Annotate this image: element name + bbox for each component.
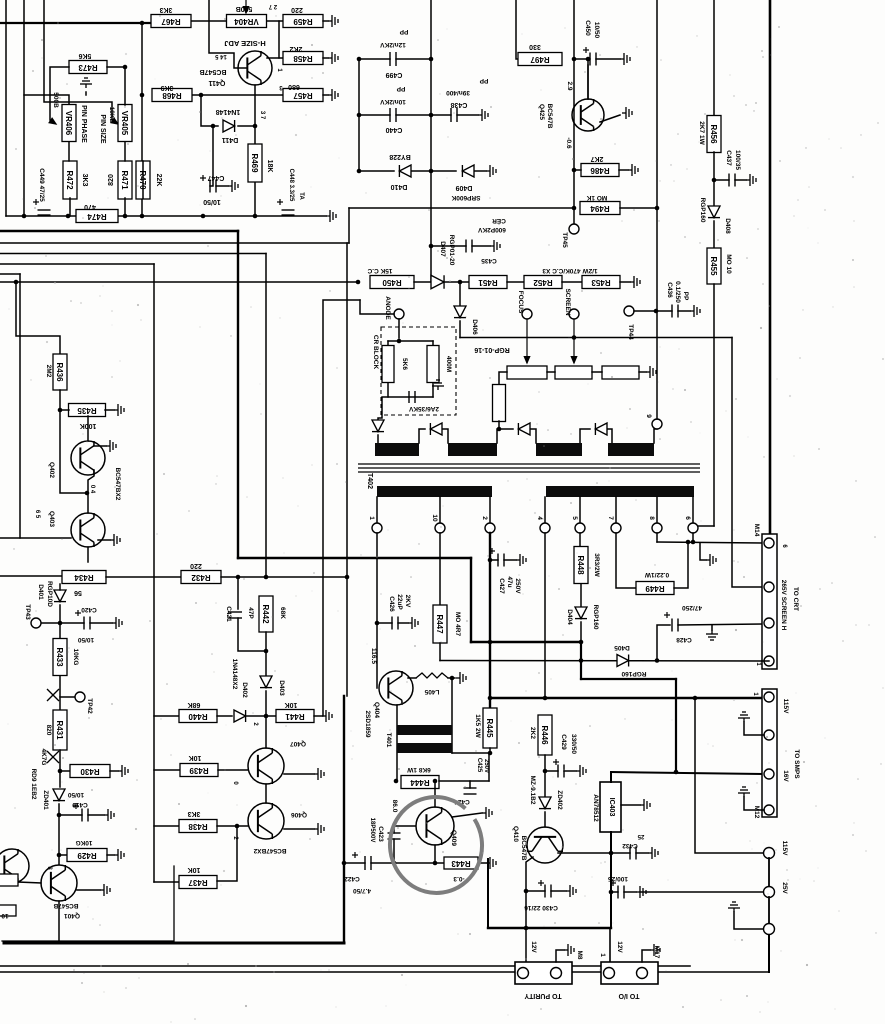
pin 1 of T402 [372,523,382,533]
wire C438 to ground [457,114,478,116]
wire anode drop [398,319,400,338]
resistor R453 [582,276,620,289]
junction rail x203 [201,214,206,219]
wire Q410 emitter [526,857,533,963]
wire C419 to ground [88,814,104,816]
junction R437 base row [235,824,240,829]
diode D404 [575,607,587,619]
wire C427 stub [490,559,498,561]
wire R437 up link [217,826,237,881]
svg-text:C422: C422 [344,875,360,882]
wire Q425 collector [587,65,589,99]
wire C436 to ground [678,310,690,312]
junction R497 node [572,57,577,62]
svg-text:R467: R467 [161,17,181,26]
ground VR406 wiper top [80,78,92,88]
ground at C427 [516,554,526,566]
svg-text:R459: R459 [293,17,313,26]
svg-text:D410: D410 [391,183,408,190]
svg-text:R486: R486 [590,166,610,175]
resistor R430 [70,765,110,778]
junction D410 left [357,169,362,174]
wire C419 stub [59,814,82,816]
wire IC403 output column [610,832,612,928]
svg-text:4K7G: 4K7G [40,749,47,766]
ground in CR block [432,380,444,390]
svg-text:470: 470 [84,203,96,210]
junction base drop [392,861,397,866]
svg-text:CER: CER [492,217,506,224]
resistor R469 [248,144,262,182]
wire Q402 gnd [94,445,106,447]
wire pin1 chain [376,533,378,688]
transistor Q425 [572,99,604,131]
ground at D409 [486,165,496,177]
wire left vertical bus a [5,0,7,216]
potentiometer VR406 [62,105,76,142]
svg-text:47P: 47P [247,607,254,619]
wire C425 stem [469,781,471,788]
wire R432 to x347 [221,576,347,578]
wire thick row y679 [581,678,676,680]
svg-text:M8: M8 [576,950,583,959]
wire thick row y642 [471,641,581,643]
wire R470 span [142,161,144,198]
wire base bus x574 [573,0,575,170]
wire R486 stub [574,169,581,171]
wire H-SIZE box corner [209,0,247,68]
wire long row y253 [0,253,266,255]
wire R430 to ground [110,770,118,772]
svg-text:820: 820 [108,174,115,186]
junction R494 x657 [655,206,660,211]
wire bus to R468 [141,23,143,216]
svg-text:12n/2KV: 12n/2KV [380,41,406,48]
ground at R441 [322,710,332,722]
test point TP44 [624,306,634,316]
resistor R438 [179,820,217,833]
wire Q401 emitter [58,901,60,943]
wire Q401 gnd [77,889,100,891]
svg-text:R436: R436 [55,362,64,382]
ground at C432 [648,847,658,859]
wire thick row y558 [238,557,471,559]
wire x574 to R494 row [573,170,575,208]
ground at R443 [486,857,496,869]
capacitor C448 [282,210,295,215]
resistor R433 [53,639,67,676]
junction anode CR [397,339,402,344]
svg-text:BC547BX2: BC547BX2 [114,468,121,501]
resistor 5K6 CR [382,346,394,383]
svg-text:1N4148: 1N4148 [216,108,241,115]
svg-text:250V: 250V [483,759,489,773]
ground at Q406 [314,823,324,835]
wire row y337 [460,337,732,339]
wire cap column x359 [358,59,360,171]
svg-text:VR405: VR405 [120,111,129,136]
svg-text:RD9 1EB2: RD9 1EB2 [30,768,37,799]
capacitor C422 [365,856,371,870]
capacitor C421 [228,612,242,618]
focus block resistor 1 [507,366,547,379]
svg-text:R456: R456 [709,124,718,144]
wire R486 to ground [619,169,628,171]
svg-text:10n/2KV: 10n/2KV [380,98,406,105]
pin 9 of T402 [652,419,662,429]
wire R436 feed [16,282,60,355]
svg-text:68K: 68K [188,701,201,708]
svg-text:R494: R494 [590,204,610,213]
ground at Q407 [314,768,324,780]
svg-text:Q409: Q409 [450,830,457,846]
wire bus x657 top [656,0,658,208]
wire left bus x154 [153,264,155,882]
svg-text:T401: T401 [385,733,392,748]
wire D411 to emitter [238,125,255,127]
resistor partial left edge [0,874,18,886]
wire C428 to M14 row [678,624,762,625]
wire C450 to ground [596,58,620,60]
plus C448 [277,199,283,205]
wire D401 to TP43 row [59,605,61,639]
test point TP45 [569,224,579,234]
svg-text:3 7: 3 7 [259,111,265,120]
wire 115V to 25V [768,858,770,886]
wire L405 node down [451,678,453,753]
wire R494 to bus [620,207,657,209]
potentiometer VR404 [227,15,267,28]
svg-text:BC547B: BC547B [520,836,527,861]
ground at R457 [328,89,338,101]
wire long row y660 [440,660,762,663]
connector pin 12V purity [518,968,529,979]
svg-text:220: 220 [291,6,303,13]
svg-text:3K3: 3K3 [159,6,172,13]
wire T402 pin 10 lead [439,497,441,523]
wire thick x581 [580,642,582,679]
wire row y208 [349,207,574,209]
wire focus blocks link1 [547,371,555,373]
svg-text:25V: 25V [781,882,788,894]
wire R452 to R453 [562,281,582,283]
wire Q404 collector row [408,677,416,679]
junction x431 y246 [429,244,434,249]
wire M8 gnd hook [556,950,564,962]
wire focus blocks link2 [592,371,602,373]
svg-text:ZD402: ZD402 [556,790,563,810]
wire screen arrow [571,319,576,363]
capacitor C438 [451,108,457,122]
svg-text:R451: R451 [478,278,498,287]
svg-text:Q407: Q407 [290,740,306,747]
junction y928 purity [524,926,529,931]
svg-text:Q404: Q404 [373,702,380,718]
diode D415 between bars [595,423,607,435]
wire R468 to R457 row [190,94,283,96]
wire pin8 chain [656,533,658,542]
junction top rail x142 [140,21,145,26]
svg-text:D401: D401 [37,584,44,600]
junction x695 y698 [693,696,698,701]
wire D409 to ground [475,170,486,172]
wire R456 to C437 [713,152,715,206]
diode D414 between bars [518,423,530,435]
wire bar4 to pin9 [654,429,657,443]
svg-text:R449: R449 [645,584,665,593]
wire D406 to row y337 [459,321,461,338]
junction rail x142 [140,214,145,219]
svg-text:D406: D406 [471,319,478,335]
ground at R458 [328,52,338,64]
wire C426 to ground [398,622,408,624]
svg-text:115V: 115V [782,699,789,714]
diode D403 [260,676,272,688]
wire Q407 emitter [265,784,267,803]
wire thick bottom rail [4,942,344,945]
cross mark upper [47,689,59,701]
junction R494 left [572,206,577,211]
wire bar3-D415 link [580,429,590,443]
wire C431 stub [611,891,618,893]
svg-text:18P500V: 18P500V [369,818,375,843]
wire Q406 gnd [284,828,314,830]
wire R447 row into M14 [762,660,769,662]
svg-text:R440: R440 [188,712,208,721]
svg-text:2K2: 2K2 [289,45,302,52]
wire long row y264 [0,263,154,265]
wire C420 to ground [90,622,112,624]
ground heater hook [706,554,716,566]
resistor R452 [524,276,562,289]
svg-text:T402: T402 [366,473,373,489]
plus C427 [489,548,495,554]
svg-text:56: 56 [74,589,82,596]
wire R434 to D401 [59,584,61,590]
svg-text:TO CRT: TO CRT [792,587,799,611]
svg-text:BC547B: BC547B [200,68,227,75]
wire x695 drop [695,698,763,853]
svg-text:1/2W 470K/C.C X3: 1/2W 470K/C.C X3 [542,267,598,274]
wire T402 pin 4 lead [544,497,546,523]
wire R430 stub [60,770,70,772]
junction TP43 row [58,621,63,626]
svg-text:1: 1 [599,953,606,957]
resistor R459 [283,15,323,28]
svg-text:15K C.C: 15K C.C [367,267,392,274]
ground at Q402 [106,440,116,452]
wire C435 stem [431,245,466,247]
svg-text:8: 8 [648,516,655,520]
wire pin10 chain lower [439,643,441,661]
svg-text:R455: R455 [709,256,718,276]
svg-text:IC403: IC403 [608,798,615,817]
ground at R429 [114,849,124,861]
wire Q402 emitter [88,470,94,513]
wire VR406 wiper arrow [49,118,56,124]
svg-text:2.9: 2.9 [566,81,573,90]
svg-text:R472: R472 [65,170,74,190]
connector M14 pin SCREEN [764,582,774,592]
ground at C426 [408,617,418,629]
ground at rail end [326,210,336,222]
svg-text:820: 820 [45,725,52,736]
svg-text:R450: R450 [382,278,402,287]
wire SMPS gnd2 hook [744,797,764,810]
svg-text:10: 10 [1,912,9,919]
svg-text:R443: R443 [451,859,471,868]
annotation grey circle [384,791,488,899]
svg-text:D404: D404 [566,609,573,625]
wire R445 bottom [489,748,491,753]
diode D405 [617,655,629,667]
junction R429 [57,853,62,858]
svg-text:R438: R438 [188,822,208,831]
svg-text:TO SMPS: TO SMPS [793,749,800,779]
wire C427 to ground [504,559,516,561]
resistor R440 [179,710,217,723]
wire thick B+ row y698 [490,697,762,699]
wire D410 row [359,170,394,172]
resistor R471 [118,161,132,199]
connector pin 12V io [604,968,615,979]
svg-text:AN78512: AN78512 [592,794,599,822]
wire bottom rail y216 [6,215,326,217]
wire R450 to D407 [414,281,431,283]
connector TO PURITY box [515,962,572,984]
junction x344 y863 [342,861,347,866]
ground M17 hook [650,944,660,956]
wire R436 to base bus [60,390,87,493]
svg-text:2KV: 2KV [404,595,411,608]
resistor R467 [151,15,191,28]
wire pin2 thick chain [489,533,491,708]
diode D407 [431,275,444,289]
capacitor C428 [672,619,678,632]
wire R467 to VR404 [190,20,227,22]
wire anode feed [360,300,394,314]
diode D402 [234,710,246,722]
junction R468 feed [140,93,145,98]
junction Q405 emitter [433,861,438,866]
junction pin2 C427 [488,558,493,563]
T402 primary winding bar 4 [608,443,654,456]
svg-text:6K8 1W: 6K8 1W [406,766,430,773]
capacitor CR block [409,391,415,403]
svg-text:MZ-9.1B2: MZ-9.1B2 [529,776,536,805]
svg-text:D411: D411 [222,136,238,143]
svg-text:D407: D407 [439,241,446,257]
svg-text:680: 680 [288,83,300,90]
svg-text:C420: C420 [81,606,97,613]
junction R436 feed [14,280,19,285]
connector TO I/O box [601,962,658,984]
junction bleeder diode row [497,427,502,432]
wire SMPS gnd1 hook [744,722,764,735]
wire R435 stub [60,409,69,411]
test point SCREEN [569,309,579,319]
svg-text:MO 10: MO 10 [725,254,732,274]
svg-text:0.1/250: 0.1/250 [674,281,681,303]
junction R435 [58,408,63,413]
svg-text:R433: R433 [55,647,64,667]
svg-text:C448 3.3/25: C448 3.3/25 [288,169,294,202]
svg-text:TP42: TP42 [86,698,93,714]
wire T402 pin 5 lead [579,497,581,523]
resistor R497 [518,53,562,66]
svg-text:16V: 16V [782,770,789,782]
svg-text:D403: D403 [278,680,285,696]
svg-text:C436: C436 [666,282,673,298]
transistor partial [0,849,29,883]
wire R441 to ground [314,715,322,717]
wire bar1-D413 link [419,429,425,443]
resistor R474 [76,210,118,223]
resistor R431 [53,710,67,750]
junction D404 thick [579,640,584,645]
plus C447 [200,175,206,181]
junction R446 top [543,696,548,701]
wire y863 row left [344,862,365,864]
svg-text:TP43: TP43 [24,604,31,620]
wire C432 stub [611,852,630,854]
wire Q405 collector [434,781,436,807]
svg-text:R471: R471 [120,170,129,190]
junction R486 node [572,168,577,173]
connector SMPS pin gnd2 [764,805,774,815]
wire pin10 chain upper [439,533,441,605]
junction Q402 Q403 [85,491,90,496]
T402 primary winding bar 1 [375,443,419,456]
svg-text:C449 47/25: C449 47/25 [38,168,45,202]
capacitor C419 [82,809,88,822]
svg-text:R458: R458 [293,54,313,63]
wire R448 to D404 [580,584,582,607]
wire Q410 collector [558,852,611,854]
wire R434 row left [0,575,61,577]
svg-text:9: 9 [645,414,652,418]
wire R444 right [439,780,489,782]
junction pin2 y698 [488,696,493,701]
svg-text:2K7: 2K7 [590,155,603,162]
diode D409 [462,165,474,177]
wire D410 right [412,170,431,172]
pin 5 of T402 [575,523,585,533]
junction rail x102 [100,214,105,219]
svg-text:10KG: 10KG [76,839,93,846]
svg-text:C427: C427 [498,578,505,594]
CR block dashed box [381,327,456,415]
wire pin7 chain [616,533,636,588]
svg-text:PIN SIZE: PIN SIZE [99,114,106,144]
svg-text:10/50: 10/50 [593,22,600,39]
svg-text:C419: C419 [72,801,88,808]
junction C437 [712,178,717,183]
junction C436 node [654,309,659,314]
wire R472 bottom [69,198,71,216]
wire VR406 bottom [68,142,70,161]
wire C440 right [396,114,431,116]
wire R443 to ground [478,862,486,864]
wire TP45 stem [573,208,575,224]
svg-text:-0.6: -0.6 [565,137,572,149]
plus C450 [583,47,589,53]
plus C422 [352,852,358,858]
wire C436 left stub [656,310,672,312]
wire C421 lower [238,618,266,651]
svg-text:RGP160: RGP160 [592,605,599,630]
svg-text:10/50: 10/50 [67,791,84,798]
